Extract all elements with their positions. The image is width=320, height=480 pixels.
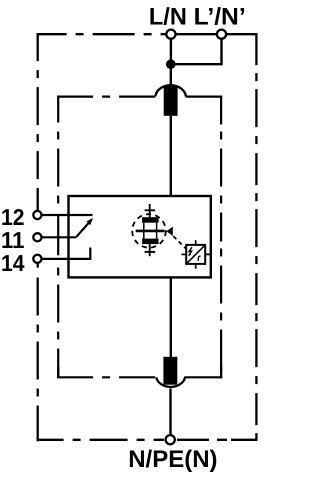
- top isolating spark gap electrode (filled): [164, 86, 178, 116]
- wire bottom spark gap down to N/PE terminal: [169, 389, 171, 437]
- terminal L'/N' circle: [217, 30, 226, 39]
- trigger arrowhead pointing at spark gap: [166, 227, 172, 236]
- terminal 14 circle: [33, 255, 41, 263]
- spark gap middle electrode bar: [136, 230, 165, 233]
- inner module dashed border: right edge bottom corner stub: [220, 358, 222, 378]
- inner module dashed border: right edge: [220, 96, 222, 379]
- spark gap body left wall: [143, 223, 145, 239]
- inner module dashed border: top edge left part: [57, 95, 156, 97]
- wire terminal 12 to NC contact: [42, 214, 92, 216]
- inner module dashed border: bottom edge left part: [57, 376, 157, 378]
- wire module box down to bottom isolating spark gap: [170, 277, 172, 357]
- outer enclosure dashed border: left edge stub below terminal 14: [37, 263, 39, 268]
- inner module dashed border: top edge right part: [186, 95, 223, 97]
- junction node (L/N tap): [166, 59, 176, 69]
- wire L'/N' terminal down and left to junction: [172, 39, 222, 64]
- svg-text:14: 14: [1, 250, 25, 276]
- trigger unit small curve mark: [198, 256, 200, 261]
- module box (solid): [69, 196, 211, 277]
- spark gap top electrode cap (filled): [142, 217, 158, 223]
- svg-text:12: 12: [1, 204, 25, 230]
- triggered spark gap dashed circle: [132, 214, 166, 248]
- changeover contact lever: [76, 220, 91, 237]
- svg-text:L/N: L/N: [149, 4, 187, 31]
- svg-text:N/PE(N): N/PE(N): [128, 446, 217, 473]
- terminal N/PE(N) circle: [166, 435, 175, 444]
- wire terminal 14 to NO contact with up-hook: [42, 248, 90, 259]
- spark gap top stub: [149, 204, 151, 217]
- spark gap bottom stub: [149, 244, 151, 256]
- top isolating spark gap dome arc: [155, 85, 186, 96]
- outer enclosure dashed border: left edge lower part: [37, 278, 39, 442]
- inner module dashed border: left edge: [57, 96, 59, 213]
- inner module dashed border: bottom edge right part: [184, 376, 222, 378]
- wire terminal 11 to contact common: [42, 236, 76, 238]
- wire top spark gap down to module box: [170, 116, 172, 196]
- terminal 11 circle: [33, 233, 41, 241]
- terminal 12 circle: [33, 211, 41, 219]
- wire L/N terminal down to junction: [170, 39, 172, 64]
- bottom isolating spark gap electrode (filled): [163, 357, 177, 385]
- outer enclosure dashed border: bottom edge right part: [177, 439, 258, 441]
- spark gap bottom stub tick: [145, 251, 156, 253]
- trigger unit lightning bolt tip: [189, 254, 192, 257]
- changeover contact lever arrowhead: [87, 218, 93, 225]
- spark gap top stub tick: [145, 209, 156, 211]
- outer enclosure dashed border: right edge: [255, 33, 257, 440]
- trigger unit top stub: [195, 240, 197, 245]
- wire junction down to top isolating spark gap: [170, 64, 172, 85]
- trigger unit diagonal: [187, 245, 205, 263]
- trigger unit lightning bolt: [189, 247, 192, 255]
- spark gap body right wall: [156, 223, 158, 239]
- trigger unit left stub: [182, 253, 187, 255]
- outer enclosure dashed border: left edge upper part: [37, 33, 39, 193]
- dashed trigger line to trigger unit: [173, 236, 187, 250]
- outer enclosure dashed border: bottom edge left part: [37, 439, 164, 441]
- terminal L/N circle: [166, 30, 175, 39]
- spark gap bottom electrode cap (filled): [142, 239, 158, 245]
- outer enclosure dashed border: top edge left part: [37, 33, 161, 35]
- bottom isolating spark gap cup arc: [156, 377, 185, 387]
- trigger unit box U1: [186, 245, 205, 264]
- trigger unit bottom stub: [195, 264, 197, 269]
- inner module dashed border: left edge bottom corner stub: [57, 366, 59, 378]
- svg-text:L’/N’: L’/N’: [194, 4, 246, 31]
- outer enclosure dashed border: top edge right part (solid through terminals): [161, 33, 258, 35]
- trigger unit right stub: [205, 253, 210, 255]
